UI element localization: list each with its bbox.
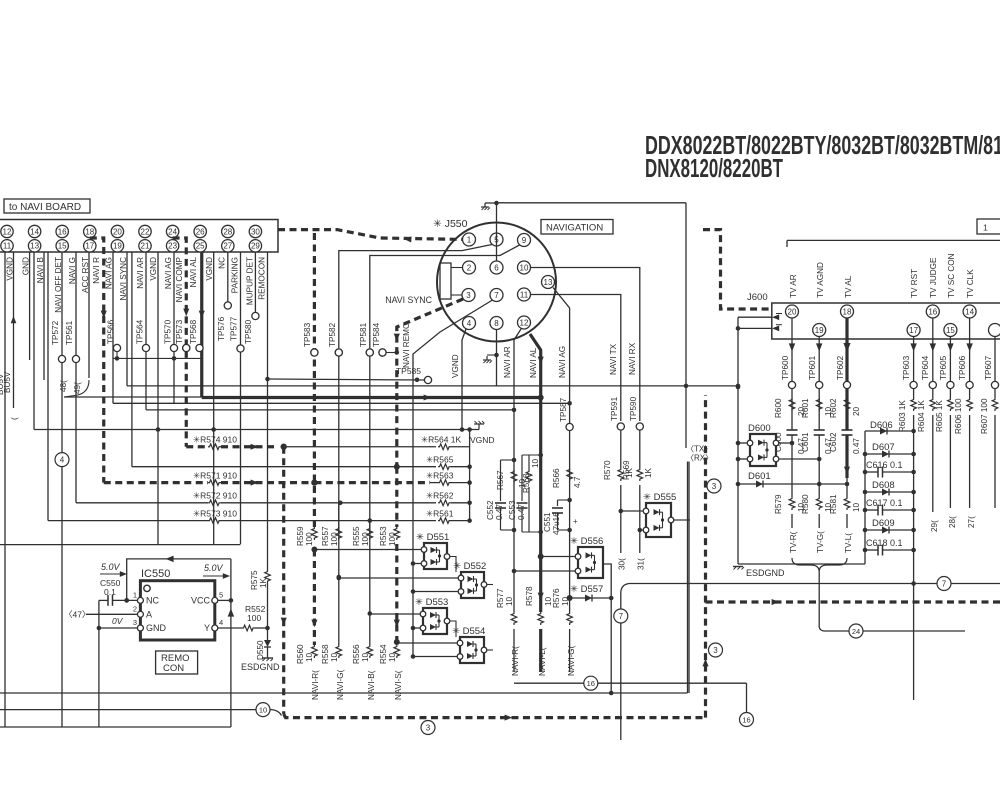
wire R605 end <box>949 415 951 508</box>
wire D555 lower <box>638 528 644 533</box>
node 3 circle a <box>707 479 721 493</box>
diode D601 <box>738 471 847 488</box>
diode D550 <box>256 628 271 660</box>
svg-text:0.47: 0.47 <box>852 438 861 454</box>
svg-text:NAVI-G(: NAVI-G( <box>567 645 576 676</box>
svg-text:+: + <box>573 517 578 526</box>
J550 pin 6 <box>490 261 503 274</box>
svg-text:TP564: TP564 <box>136 319 145 344</box>
svg-text:TP581: TP581 <box>359 322 368 347</box>
label TV-R brace <box>789 531 798 553</box>
svg-text:D600: D600 <box>748 423 771 434</box>
capacitor C553 0.47 <box>508 455 528 532</box>
svg-text:9: 9 <box>522 236 527 245</box>
svg-text:NAVI-L(: NAVI-L( <box>538 647 547 676</box>
J550 pin 7 <box>490 289 503 302</box>
svg-text:23: 23 <box>168 242 177 251</box>
svg-text:D608: D608 <box>872 480 895 491</box>
diode D608 <box>865 480 914 496</box>
wire D551 upper <box>314 549 421 551</box>
diode pack D551 <box>416 532 450 569</box>
wire pin7 NAVI REMO <box>402 300 493 379</box>
wire D554 right <box>487 649 493 651</box>
svg-text:TP584: TP584 <box>372 322 381 347</box>
svg-text:20: 20 <box>852 406 861 416</box>
svg-text:R559: R559 <box>296 526 305 546</box>
svg-text:5.0V: 5.0V <box>101 562 121 572</box>
resistor R575 1K <box>250 570 270 590</box>
J600 contact stub b <box>736 325 782 332</box>
svg-text:TP583: TP583 <box>303 322 312 347</box>
svg-text:1K: 1K <box>644 467 653 478</box>
svg-text:0.47: 0.47 <box>517 504 526 520</box>
row ESDGND right <box>738 563 865 565</box>
esd ground D550 <box>241 658 280 672</box>
svg-text:✳R573 910: ✳R573 910 <box>193 508 237 518</box>
connector pin 20 <box>111 225 123 237</box>
connector pin 16 <box>56 225 68 237</box>
svg-text:22: 22 <box>141 227 150 236</box>
tp TP566 <box>107 319 121 358</box>
resistor R606 100 <box>954 398 972 434</box>
node 4 circle <box>55 453 69 467</box>
capacitor C551 47u16 <box>543 500 578 535</box>
row Y output <box>218 604 270 631</box>
svg-text:16: 16 <box>742 716 750 725</box>
svg-text:TP591: TP591 <box>610 396 619 421</box>
bus dashed top right <box>706 599 1000 605</box>
tp TP587 col resistor R567 <box>496 470 527 490</box>
J600 pin 16 <box>926 257 939 318</box>
resistor R555 100 <box>352 526 373 546</box>
svg-text:DNX8120/8220BT: DNX8120/8220BT <box>645 153 783 183</box>
wire NAVI COMP pin23 thick dashed <box>173 238 190 447</box>
wire TV gather down <box>819 572 824 631</box>
connector pin 13 <box>28 240 40 252</box>
connector pin 12 <box>1 225 13 237</box>
svg-text:7: 7 <box>494 291 499 300</box>
svg-text:30(: 30( <box>618 558 627 570</box>
svg-text:TP601: TP601 <box>808 355 817 380</box>
svg-text:TP602: TP602 <box>836 355 845 380</box>
connector pin 15 <box>56 240 68 252</box>
node D551 feed <box>311 547 317 553</box>
wire NAVI AG pin20 <box>105 252 114 403</box>
svg-text:D601: D601 <box>748 471 771 482</box>
svg-text:TV RST: TV RST <box>910 269 919 298</box>
wire VGND pin21 <box>149 252 158 544</box>
svg-text:20: 20 <box>113 227 122 236</box>
svg-text:100: 100 <box>330 532 339 546</box>
wire pin9 NAVI B <box>370 245 520 348</box>
wire R604 end <box>932 415 934 512</box>
label NAVI-R mid brace <box>511 646 520 676</box>
svg-text:15: 15 <box>58 242 67 251</box>
bus dashed riser right <box>702 395 708 718</box>
wire D555 upper <box>619 509 644 514</box>
svg-text:TV AL: TV AL <box>844 275 853 298</box>
svg-text:7: 7 <box>942 580 947 589</box>
svg-text:to NAVI BOARD: to NAVI BOARD <box>9 202 81 213</box>
svg-text:NAVI AR: NAVI AR <box>503 346 512 378</box>
node NAVI COMP junction <box>281 444 287 450</box>
svg-text:ESDGND: ESDGND <box>746 568 785 578</box>
svg-text:16: 16 <box>928 307 937 316</box>
connector pin 17 <box>84 240 96 252</box>
column TV CLK <box>966 318 972 398</box>
resistor R564 1K <box>284 435 470 450</box>
svg-text:VGND: VGND <box>149 257 158 281</box>
ic IC550 box <box>140 568 214 640</box>
column NAVI-R dashed <box>313 233 316 527</box>
svg-text:R576: R576 <box>552 588 561 608</box>
svg-text:✳R571 910: ✳R571 910 <box>193 470 237 480</box>
svg-text:TV JUDGE: TV JUDGE <box>929 257 938 298</box>
svg-text:✳R562: ✳R562 <box>426 491 454 501</box>
svg-text:✳ D554: ✳ D554 <box>452 626 485 637</box>
svg-text:1: 1 <box>467 235 472 244</box>
svg-text:5: 5 <box>219 590 223 599</box>
svg-text:D606: D606 <box>870 420 893 431</box>
svg-text:R569: R569 <box>622 460 631 480</box>
svg-text:CON: CON <box>163 663 184 674</box>
svg-text:VGND: VGND <box>470 435 495 445</box>
resistor R559 100 <box>296 526 317 546</box>
resistor R574 910 <box>186 435 278 450</box>
wire NAVI B pin13 <box>36 252 45 380</box>
row R563 <box>314 470 472 485</box>
connector pin 22 <box>139 225 151 237</box>
connector J600 box <box>747 292 1000 339</box>
tp TP582 redraw <box>335 349 342 356</box>
wire pin3 sync stub <box>451 294 462 296</box>
resistor R581 10 <box>829 494 861 514</box>
wire TV-L end <box>846 514 848 528</box>
diode D607 <box>865 442 914 458</box>
label REMO CON box <box>156 651 198 674</box>
svg-text:29: 29 <box>251 242 260 251</box>
label NAVI-G mid brace <box>567 645 576 676</box>
svg-text:NAVI SYNC: NAVI SYNC <box>385 295 432 305</box>
svg-text:15: 15 <box>946 326 955 335</box>
svg-text:11: 11 <box>520 290 529 299</box>
svg-text:19: 19 <box>113 242 122 251</box>
bus NAVI COMP dashed down <box>281 447 287 714</box>
resistor R580 10 <box>801 494 833 514</box>
tp TP582 <box>328 322 342 356</box>
wire D551 lower <box>411 561 421 566</box>
svg-text:NAVI OFF DET: NAVI OFF DET <box>54 257 63 313</box>
row 0V <box>97 616 138 630</box>
svg-text:47u16: 47u16 <box>552 512 561 535</box>
svg-text:TV CLK: TV CLK <box>966 269 975 298</box>
svg-text:R577: R577 <box>496 588 505 608</box>
svg-text:〈RX〉: 〈RX〉 <box>686 454 713 463</box>
svg-text:100: 100 <box>361 532 370 546</box>
svg-text:NAVI B: NAVI B <box>36 256 45 283</box>
svg-text:49(: 49( <box>73 382 82 394</box>
J550 pin 5 <box>490 233 503 246</box>
row 544 <box>0 544 241 546</box>
wire MUPUP DET pin30 <box>244 252 259 344</box>
J550 pin 2 <box>463 261 476 274</box>
svg-text:R555: R555 <box>352 526 361 546</box>
resistor R554 10 <box>379 644 400 664</box>
svg-text:✳ D555: ✳ D555 <box>643 492 676 503</box>
label 5.0V right <box>203 563 230 579</box>
svg-text:NAVI-B(: NAVI-B( <box>367 670 376 700</box>
wire D600 ul <box>738 442 747 444</box>
column TV SC CON <box>947 337 953 399</box>
J600 pin 19 <box>813 262 826 337</box>
wire D600 lr <box>779 458 819 460</box>
J600 bracket top <box>787 240 1000 247</box>
svg-text:10: 10 <box>330 652 339 662</box>
label NAVI-G brace <box>336 669 345 700</box>
svg-text:20: 20 <box>788 307 797 316</box>
wire D600 ll <box>736 457 747 462</box>
label 31 brace <box>637 558 646 570</box>
node 7 circle a <box>614 609 628 623</box>
column TV JUDGE <box>930 318 936 398</box>
svg-text:10: 10 <box>505 596 514 606</box>
wire PARKING pin27 <box>230 252 245 352</box>
bus NAVI REMO diodes <box>412 379 414 657</box>
svg-text:10: 10 <box>520 263 529 272</box>
svg-text:VCC: VCC <box>191 595 211 605</box>
svg-text:TP568: TP568 <box>189 319 198 344</box>
svg-text:TP604: TP604 <box>921 355 930 380</box>
svg-text:3: 3 <box>712 482 717 491</box>
svg-text:R557: R557 <box>321 526 330 546</box>
J550 pin 4 <box>463 317 476 330</box>
resistor R576 10 <box>552 588 572 625</box>
tp TP606 <box>958 355 973 388</box>
wire pin4 VGND <box>451 329 466 432</box>
label box to NAVI BOARD <box>4 199 90 213</box>
wire J550 NAVI AL thick diag <box>529 334 544 398</box>
svg-text:R566: R566 <box>552 468 561 488</box>
capacitor C552 0.47 <box>486 460 514 530</box>
svg-text:3: 3 <box>426 724 431 733</box>
column TV AL thick <box>843 318 850 430</box>
wire D553 right <box>450 621 456 637</box>
row R565 <box>132 455 472 470</box>
diode pack D552 <box>453 561 487 598</box>
svg-text:TV-G(: TV-G( <box>816 531 825 553</box>
svg-text:Y: Y <box>204 623 210 633</box>
svg-text:IC550: IC550 <box>141 568 170 580</box>
svg-text:TP587: TP587 <box>559 397 568 422</box>
svg-text:16: 16 <box>587 679 595 688</box>
svg-text:4: 4 <box>60 456 65 465</box>
svg-text:(: ( <box>10 417 19 420</box>
J600 pin 13 clipped <box>989 324 1000 337</box>
svg-text:TP570: TP570 <box>164 319 173 344</box>
connector CN top box <box>0 220 278 253</box>
row pin8 ground rail <box>127 384 740 389</box>
label RX brace <box>686 454 713 463</box>
svg-text:D607: D607 <box>872 442 895 453</box>
capacitor C601 0.47 <box>801 430 833 497</box>
row NAVI AL thick <box>202 394 541 400</box>
svg-text:ESDGND: ESDGND <box>241 662 280 672</box>
svg-text:✳R564 1K: ✳R564 1K <box>421 435 462 445</box>
svg-text:TP590: TP590 <box>629 396 638 421</box>
node 3 circle b <box>709 643 723 657</box>
svg-text:NAVI AL: NAVI AL <box>189 257 198 288</box>
connector pin 25 <box>194 240 206 252</box>
node R571 junction <box>311 479 317 485</box>
svg-text:✳ D551: ✳ D551 <box>416 532 449 543</box>
label NAVI SYNC text pos <box>0 0 1 1</box>
label J550 <box>433 218 468 230</box>
connector pin 21 <box>139 240 151 252</box>
svg-text:TV SC CON: TV SC CON <box>947 253 956 298</box>
svg-text:✳ D553: ✳ D553 <box>415 597 448 608</box>
svg-text:18: 18 <box>843 307 852 316</box>
column TV AR <box>789 318 795 430</box>
label TV-G brace <box>816 531 825 553</box>
svg-text:✳ J550: ✳ J550 <box>433 218 468 230</box>
J600 pin 14 <box>963 269 976 318</box>
svg-text:R581: R581 <box>829 494 838 514</box>
tp TP583 redraw <box>311 349 318 356</box>
connector pin 24 <box>166 225 178 237</box>
svg-text:C551: C551 <box>543 512 552 532</box>
wire row466 riser <box>131 252 133 467</box>
svg-text:TP606: TP606 <box>958 355 967 380</box>
column NAVI-G <box>337 503 342 645</box>
svg-text:NAVI-R(: NAVI-R( <box>311 670 320 700</box>
wire NAVI G pin15 <box>65 252 82 503</box>
capacitor C602 0.47 <box>829 430 861 497</box>
label 27 brace <box>967 516 976 528</box>
svg-text:R606 100: R606 100 <box>954 398 963 434</box>
svg-text:3: 3 <box>466 291 471 300</box>
node 10 circle <box>256 703 270 717</box>
ground pin8 <box>483 356 492 363</box>
tp TP584 <box>372 322 399 356</box>
J550 pin 1 <box>463 233 476 246</box>
row TP585 <box>265 366 431 384</box>
bus stack left <box>863 431 868 564</box>
svg-text:16: 16 <box>58 227 67 236</box>
wire NAVI-G mid lower <box>569 629 571 672</box>
svg-text:TP577: TP577 <box>230 316 239 341</box>
tp TP590 <box>629 396 643 430</box>
wire pin11 RX <box>531 295 621 422</box>
svg-text:2: 2 <box>133 604 137 613</box>
wire D556 right <box>603 564 611 598</box>
svg-text:✳R563: ✳R563 <box>426 470 454 480</box>
svg-text:C601: C601 <box>801 432 810 452</box>
ic pin4 Y <box>204 618 223 633</box>
resistor R601 10 <box>801 398 833 418</box>
J550 inner rect <box>440 263 451 299</box>
wire NAVI R dashed to pin1 <box>278 230 463 243</box>
svg-text:4: 4 <box>467 319 472 328</box>
svg-text:C617 0.1: C617 0.1 <box>866 498 903 508</box>
brace TV gather <box>792 558 847 572</box>
wire NAVI-L lower thick <box>539 629 542 672</box>
svg-text:TV AGND: TV AGND <box>816 262 825 298</box>
wire dashed link J600 <box>703 230 772 309</box>
wire node16 drop <box>746 683 748 712</box>
wire TP585 col <box>240 352 242 544</box>
wire pin6 to top gnd <box>485 201 499 261</box>
svg-text:NAVI G: NAVI G <box>68 257 77 284</box>
label TV-L brace <box>844 533 853 553</box>
wire D553 lower <box>411 626 420 631</box>
ic pin2 A <box>133 604 152 619</box>
svg-text:NAVI REMO: NAVI REMO <box>402 323 411 368</box>
svg-text:TV AR: TV AR <box>789 274 798 298</box>
J600 pin 18 <box>841 275 854 318</box>
row node7 <box>621 584 1000 593</box>
wire to R573 row <box>47 252 49 521</box>
svg-text:✳R561: ✳R561 <box>426 508 454 518</box>
svg-text:NAVI-S(: NAVI-S( <box>394 670 403 700</box>
wire pin8 gnd <box>487 330 499 386</box>
row J550 top to TX riser <box>497 202 687 204</box>
svg-text:C616 0.1: C616 0.1 <box>866 460 903 470</box>
svg-text:R580: R580 <box>801 494 810 514</box>
wire R606 end <box>969 415 971 508</box>
J550 pin 8 <box>490 317 503 330</box>
svg-text:25: 25 <box>196 242 205 251</box>
svg-text:27: 27 <box>223 242 232 251</box>
svg-text:BU5V: BU5V <box>3 371 12 393</box>
wire to VGND bus <box>33 252 35 430</box>
tp TP584 redraw <box>379 349 386 356</box>
wire D552 right <box>487 584 493 586</box>
diode D557 <box>570 584 614 602</box>
svg-text:3: 3 <box>713 646 718 655</box>
connector pin 19 <box>111 240 123 252</box>
bus D557 down <box>609 598 614 695</box>
label 29 brace <box>930 520 939 532</box>
svg-text:NAVI R: NAVI R <box>92 257 101 284</box>
tp TP570 <box>164 319 178 351</box>
resistor R603 1K <box>898 398 916 432</box>
resistor R566 4.7 <box>552 468 582 488</box>
J550 pin 9 <box>518 234 531 247</box>
tp TP587 <box>559 397 573 430</box>
svg-text:18: 18 <box>85 227 94 236</box>
wire VCC right <box>218 598 233 603</box>
wire D600 ur <box>779 442 792 444</box>
node 7 circle b <box>937 577 951 591</box>
capacitor C617 0.1 <box>865 498 914 516</box>
esd ground right <box>733 567 785 579</box>
svg-text:VGND: VGND <box>451 354 460 378</box>
node 3 circle c <box>421 721 435 735</box>
svg-text:0.1: 0.1 <box>104 587 116 597</box>
svg-text:R601: R601 <box>801 398 810 418</box>
svg-text:NC: NC <box>146 595 159 605</box>
svg-text:REMOCON: REMOCON <box>258 257 267 300</box>
connector pin 18 <box>84 225 96 237</box>
resistor R553 100 <box>379 526 400 546</box>
svg-text:3: 3 <box>133 618 137 627</box>
resistor R572 910 row <box>76 491 472 506</box>
svg-text:R570: R570 <box>603 460 612 480</box>
svg-text:1: 1 <box>133 590 137 599</box>
svg-text:TV-L(: TV-L( <box>844 533 853 553</box>
label NAVI-B brace <box>367 670 376 700</box>
svg-text:13: 13 <box>30 242 39 251</box>
